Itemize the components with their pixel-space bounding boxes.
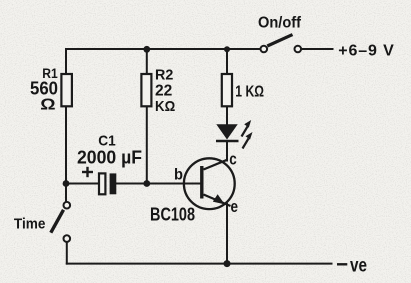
svg-text:ve: ve	[350, 256, 367, 277]
svg-text:e: e	[231, 197, 239, 216]
svg-text:b: b	[174, 167, 183, 184]
svg-text:1 KΩ: 1 KΩ	[235, 83, 264, 100]
svg-text:560: 560	[30, 79, 58, 99]
svg-text:Ω: Ω	[40, 97, 56, 114]
svg-text:R2: R2	[155, 66, 173, 83]
svg-text:2000 µF: 2000 µF	[77, 146, 142, 167]
svg-text:On/off: On/off	[258, 15, 302, 32]
svg-text:Time: Time	[14, 215, 46, 232]
svg-text:BC108: BC108	[150, 204, 195, 225]
svg-text:+6–9 V: +6–9 V	[338, 43, 394, 60]
svg-text:c: c	[229, 150, 237, 169]
svg-text:KΩ: KΩ	[155, 98, 175, 115]
